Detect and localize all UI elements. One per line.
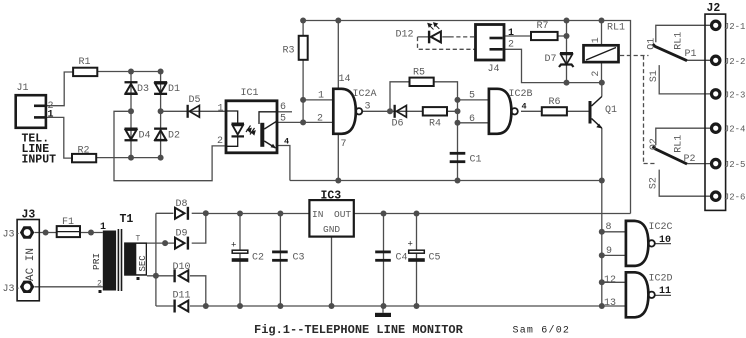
wire bridge left column xyxy=(130,72,132,158)
junction IC2A pin2 node xyxy=(300,119,306,125)
wire ground symbol stub xyxy=(382,306,384,313)
wire contact S1 to J2-3 xyxy=(659,65,710,94)
svg-text:J3-: J3- xyxy=(3,230,21,241)
svg-text:SEC: SEC xyxy=(138,255,148,272)
svg-text:RL1: RL1 xyxy=(674,32,685,50)
svg-text:IC3: IC3 xyxy=(321,190,342,203)
svg-text:6: 6 xyxy=(469,114,475,125)
junction R3 top rail xyxy=(300,18,306,24)
svg-text:J2-4: J2-4 xyxy=(724,125,746,135)
svg-text:C3: C3 xyxy=(293,253,305,264)
svg-text:+: + xyxy=(231,241,236,251)
junction Q1 emitter ground line xyxy=(599,178,605,184)
wire IC2B pin6 xyxy=(458,122,489,124)
nand gate IC2C xyxy=(606,221,673,266)
svg-text:T1: T1 xyxy=(120,213,134,226)
mechanical dashed link RL1 to contacts xyxy=(620,55,649,57)
connector J1 xyxy=(16,83,56,167)
svg-text:O1: O1 xyxy=(646,38,657,50)
ground xyxy=(375,313,391,317)
wire R5 branch right xyxy=(434,82,457,100)
diode D5 xyxy=(187,95,201,118)
junction secondary bottom left vertical xyxy=(153,273,159,279)
wire R1 to bridge top rail xyxy=(97,71,160,73)
svg-text:11: 11 xyxy=(659,286,671,297)
svg-text:J2-3: J2-3 xyxy=(724,90,746,100)
junction C4 top xyxy=(381,211,387,217)
junction C2 top xyxy=(237,211,243,217)
nand gate IC2A xyxy=(317,74,377,150)
junction C3 top xyxy=(277,211,283,217)
wire dashed D12 anode to J4 pin1 xyxy=(450,36,476,38)
relay contact S2 xyxy=(649,177,660,189)
svg-text:1: 1 xyxy=(48,109,54,120)
terminal J2-4 xyxy=(712,124,746,135)
junction D7 bottom relay line xyxy=(564,80,570,86)
transformer T1 xyxy=(91,213,148,293)
svg-text:R5: R5 xyxy=(413,68,425,79)
junction IC2C pin9 xyxy=(599,252,605,258)
wire RL1 pin2 to drive node xyxy=(601,62,603,83)
svg-text:RL1: RL1 xyxy=(674,135,685,153)
resistor R4 xyxy=(423,107,447,129)
wire C2 branch xyxy=(239,214,241,307)
relay contact P1 lever xyxy=(646,32,696,61)
wire R2 to bridge bottom rail xyxy=(97,157,161,159)
junction C1 ground line xyxy=(455,178,461,184)
svg-text:7: 7 xyxy=(341,139,347,150)
svg-text:F1: F1 xyxy=(62,217,74,228)
svg-text:S2: S2 xyxy=(649,177,660,189)
junction bridge bottom left xyxy=(128,155,134,161)
junction RL1 pin2 Q1 collector xyxy=(599,80,605,86)
wire ground line xyxy=(290,180,602,182)
resistor R3 xyxy=(283,36,308,60)
wire IC3 OUT rail to corner xyxy=(354,213,631,215)
wire D11 row xyxy=(156,305,206,307)
svg-text:6: 6 xyxy=(280,102,286,113)
junction C3 bottom xyxy=(277,303,283,309)
nand gate IC2D xyxy=(604,272,673,317)
wire IC2A pin7 to ground line xyxy=(337,134,339,181)
junction J3-1 wire xyxy=(43,230,49,236)
wire bridge mid-right through D5 to IC1 pin 1 xyxy=(161,110,225,112)
wire IC2C output pin10 xyxy=(655,243,672,245)
wire dashed D12 cathode to J4 pin2 xyxy=(418,37,476,49)
svg-text:J2: J2 xyxy=(707,2,721,15)
junction bridge top right xyxy=(158,69,164,75)
junction C4 bottom ground symbol xyxy=(381,303,387,309)
wire rectifier left vertical xyxy=(155,213,157,306)
svg-text:13: 13 xyxy=(604,298,616,309)
junction IC2D pin12 xyxy=(599,279,605,285)
svg-text:1: 1 xyxy=(591,37,602,43)
regulator IC3 xyxy=(309,190,353,237)
svg-text:IC1: IC1 xyxy=(241,88,259,99)
svg-text:5: 5 xyxy=(280,114,286,125)
connector J2 xyxy=(705,2,726,210)
wire D12 anode stub xyxy=(418,36,450,38)
terminal J3-1 xyxy=(20,226,34,238)
svg-text:C1: C1 xyxy=(470,155,482,166)
junction D8 D9 cathode node xyxy=(203,210,209,216)
svg-text:+: + xyxy=(408,240,413,250)
junction RL1 pin1 top rail xyxy=(599,18,605,24)
wire contact S2 to J2-6 xyxy=(659,170,710,197)
junction IC2B pin6 node xyxy=(455,120,461,126)
svg-text:J3: J3 xyxy=(22,209,36,222)
diode D10 xyxy=(173,262,191,282)
wire R6 to Q1 base xyxy=(567,110,589,112)
relay coil RL1 xyxy=(584,23,626,77)
wire R3 bottom to input row xyxy=(302,60,304,123)
wire J2-1 to contact O1 xyxy=(656,25,711,42)
wire IC2A output through D6 and R4 to IC2B input node xyxy=(362,110,457,112)
svg-text:1: 1 xyxy=(318,91,324,102)
transistor Q1 xyxy=(589,97,618,129)
wire J2-4 to contact O2 xyxy=(656,128,711,145)
svg-text:IC2A: IC2A xyxy=(353,89,377,100)
wire J4 pin1 to R7 xyxy=(504,35,531,37)
svg-text:5: 5 xyxy=(469,91,475,102)
wire IC2A pin1 input xyxy=(303,99,333,101)
wire P2 pole to J2-5 xyxy=(687,163,710,165)
optocoupler IC1 xyxy=(217,88,289,153)
junction D7 top rail xyxy=(564,18,570,24)
svg-text:J2-5: J2-5 xyxy=(724,160,746,170)
junction bridge mid left xyxy=(128,108,134,114)
svg-text:D6: D6 xyxy=(392,119,404,130)
svg-text:10: 10 xyxy=(659,235,671,246)
svg-text:R6: R6 xyxy=(549,97,561,108)
wire IC2D pin12 xyxy=(602,281,626,283)
wire bridge right column xyxy=(160,72,162,158)
svg-text:2: 2 xyxy=(508,40,514,51)
diode D2 xyxy=(154,128,180,142)
wire IC1 pin4 to ground line xyxy=(278,146,290,181)
wire J4 pin2 down and right to relay node xyxy=(504,49,602,82)
wire bridge mid-left to IC1 pin 2 return loop xyxy=(114,111,225,180)
wire D10 to ground rail xyxy=(190,276,206,306)
connector J3 xyxy=(3,209,40,301)
diode D3 xyxy=(125,81,150,95)
junction C5 top xyxy=(414,211,420,217)
svg-text:D2: D2 xyxy=(168,131,180,142)
wire T1 secondary bottom to D10 xyxy=(147,275,173,277)
svg-text:14: 14 xyxy=(339,74,351,85)
svg-text:D11: D11 xyxy=(173,291,191,302)
diode D6 xyxy=(392,105,407,130)
resistor R2 xyxy=(72,146,96,163)
wire IC2B pin5 xyxy=(458,99,489,101)
wire V+ rail to IC3 IN xyxy=(206,213,310,215)
led D12 xyxy=(396,23,441,43)
wire D8 cathode to V+ rail xyxy=(192,212,206,214)
svg-text:Sam 6/02: Sam 6/02 xyxy=(513,324,571,336)
wire IC1 pin5 to IC2A pin2 xyxy=(278,121,333,123)
junction F1 to T1 wire xyxy=(88,230,94,236)
svg-text:Fig.1--TELEPHONE LINE MONITOR: Fig.1--TELEPHONE LINE MONITOR xyxy=(254,323,464,337)
wire ground rail xyxy=(206,305,626,307)
svg-text:D12: D12 xyxy=(396,30,414,41)
svg-text:D5: D5 xyxy=(189,95,201,106)
svg-text:S1: S1 xyxy=(649,70,660,82)
terminal J2-2 xyxy=(712,56,746,67)
wire RL1 pin1 to top rail xyxy=(601,21,603,46)
svg-text:9: 9 xyxy=(606,246,612,257)
fuse F1 xyxy=(57,217,80,237)
terminal J2-3 xyxy=(712,90,746,101)
svg-text:1: 1 xyxy=(508,28,514,39)
wire IC2A pin14 to top rail xyxy=(337,21,339,89)
diode D8 xyxy=(175,199,189,220)
svg-text:D4: D4 xyxy=(139,131,151,142)
wire C1 node vertical xyxy=(457,100,459,181)
svg-text:3: 3 xyxy=(365,101,371,112)
svg-text:8: 8 xyxy=(606,222,612,233)
svg-text:INPUT: INPUT xyxy=(22,154,57,167)
wire Q1 collector vertical xyxy=(601,83,603,97)
svg-text:Q1: Q1 xyxy=(605,105,617,116)
resistor R7 xyxy=(531,21,558,40)
wire IC2C pin9 xyxy=(602,254,626,256)
svg-text:OUT: OUT xyxy=(334,209,351,220)
svg-text:C2: C2 xyxy=(252,253,264,264)
svg-text:IC2B: IC2B xyxy=(509,89,533,100)
svg-text:D7: D7 xyxy=(545,54,557,65)
svg-text:J1: J1 xyxy=(17,83,29,94)
junction bridge mid right xyxy=(158,108,164,114)
capacitor C4 xyxy=(375,251,407,264)
svg-text:D9: D9 xyxy=(176,229,188,240)
svg-text:D8: D8 xyxy=(176,199,188,210)
diode D11 xyxy=(173,291,191,313)
nand gate IC2B xyxy=(469,89,533,134)
wire T1 secondary top to D9 xyxy=(147,242,175,244)
svg-text:J2-6: J2-6 xyxy=(724,193,746,203)
wire C5 branch xyxy=(416,214,418,307)
capacitor C3 xyxy=(272,251,304,264)
terminal J3-2 xyxy=(20,281,34,293)
connector J4 xyxy=(476,25,515,76)
svg-text:2: 2 xyxy=(97,280,102,289)
wire R7 to D7 node xyxy=(558,35,567,37)
terminal J2-6 xyxy=(712,192,746,203)
wire R3 top stub xyxy=(302,21,304,36)
wire J1 pin2 to R1 xyxy=(46,72,73,106)
svg-text:C4: C4 xyxy=(396,253,408,264)
svg-text:4: 4 xyxy=(522,101,527,111)
junction bridge top left xyxy=(128,69,134,75)
junction D10 down ground rail xyxy=(203,303,209,309)
svg-text:D10: D10 xyxy=(173,262,191,273)
capacitor C2 xyxy=(231,241,264,264)
wire D7 vertical from top rail to relay drive line xyxy=(566,21,568,83)
capacitor C5 xyxy=(408,240,441,264)
junction IC2A pin14 top rail xyxy=(335,18,341,24)
svg-text:R2: R2 xyxy=(78,146,90,157)
svg-text:RL1: RL1 xyxy=(607,23,625,34)
svg-text:4: 4 xyxy=(284,137,289,147)
svg-text:2: 2 xyxy=(591,71,602,77)
junction IC2A pin1 node xyxy=(300,97,306,103)
junction IC2C pin8 xyxy=(599,229,605,235)
wire IC3 GND pin xyxy=(331,237,333,306)
svg-text:IC2C: IC2C xyxy=(649,222,673,233)
wire R5 branch left xyxy=(390,82,410,112)
wire D9 cathode up to V+ rail xyxy=(192,214,206,244)
svg-text:R1: R1 xyxy=(79,57,91,68)
junction IC3 GND rail xyxy=(329,303,335,309)
diode D1 xyxy=(154,81,180,95)
svg-text:PRI: PRI xyxy=(91,253,102,270)
wire IC2C pin8 xyxy=(602,231,626,233)
svg-text:T: T xyxy=(136,235,141,244)
svg-text:O2: O2 xyxy=(649,138,660,150)
capacitor C1 xyxy=(450,152,482,166)
wire Q1 emitter vertical to ground line xyxy=(601,128,603,181)
junction IC2B pin5 node xyxy=(455,97,461,103)
wire IC2D output pin11 xyxy=(655,294,672,296)
svg-text:2: 2 xyxy=(317,114,323,125)
svg-text:J2-1: J2-1 xyxy=(724,22,746,32)
svg-text:P1: P1 xyxy=(685,49,697,60)
terminal J2-1 xyxy=(712,21,746,32)
wire D8 row xyxy=(156,212,174,214)
junction R7 D7 node xyxy=(564,33,570,39)
relay contact S1 xyxy=(649,70,660,82)
resistor R1 xyxy=(73,57,97,76)
terminal J2-5 xyxy=(712,159,746,170)
svg-text:GND: GND xyxy=(323,224,340,235)
relay contact P2 lever xyxy=(649,135,696,165)
junction IC2D pin13 ground rail xyxy=(599,303,605,309)
wire spare-gate input vertical xyxy=(601,181,603,307)
wire P1 pole to J2-2 xyxy=(687,59,710,61)
wire IC1 pin6 stub xyxy=(278,111,292,113)
junction IC2A pin7 ground line xyxy=(335,178,341,184)
wire C3 branch xyxy=(279,214,281,307)
svg-text:IC2D: IC2D xyxy=(649,274,673,285)
svg-text:R4: R4 xyxy=(429,119,441,130)
svg-text:J2-2: J2-2 xyxy=(724,57,746,67)
wire IC2B output to R6 xyxy=(521,110,542,112)
junction R4 output node xyxy=(455,108,461,114)
svg-text:R7: R7 xyxy=(537,21,549,32)
junction bridge bottom right xyxy=(158,155,164,161)
diode D9 xyxy=(175,229,189,250)
wire top rail from R3 to right corner down to V+ rail xyxy=(303,21,630,214)
svg-text:12: 12 xyxy=(604,275,616,286)
junction C2 bottom xyxy=(237,303,243,309)
junction C5 bottom xyxy=(414,303,420,309)
svg-text:1: 1 xyxy=(218,103,224,114)
svg-text:2: 2 xyxy=(217,136,223,147)
wire J1 pin1 to R2 xyxy=(46,117,72,158)
svg-text:IN: IN xyxy=(312,209,323,220)
svg-text:R3: R3 xyxy=(283,46,295,57)
svg-text:AC IN: AC IN xyxy=(25,248,37,281)
svg-text:D1: D1 xyxy=(168,84,180,95)
svg-text:C5: C5 xyxy=(429,253,441,264)
junction secondary top D9 node xyxy=(162,240,168,246)
wire J3-1 through F1 to T1 primary xyxy=(35,232,103,234)
junction D6 R5 node xyxy=(387,108,393,114)
resistor R6 xyxy=(542,97,567,115)
svg-text:J4: J4 xyxy=(488,64,500,75)
svg-text:1: 1 xyxy=(100,222,106,233)
diode D4 xyxy=(125,128,151,142)
wire J3-2 to T1 primary bottom xyxy=(35,286,103,288)
svg-text:P2: P2 xyxy=(684,154,696,165)
resistor R5 xyxy=(410,68,434,87)
zener diode D7 xyxy=(545,52,574,67)
wire C4 branch xyxy=(383,214,385,307)
svg-text:J3-: J3- xyxy=(3,284,21,295)
svg-text:D3: D3 xyxy=(137,84,149,95)
